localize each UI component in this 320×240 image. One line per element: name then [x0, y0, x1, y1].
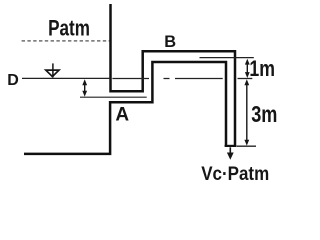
flow exit arrow — [229, 147, 231, 154]
3m double arrow — [246, 84, 248, 142]
svg-text:D: D — [7, 72, 19, 89]
svg-text:Patm: Patm — [48, 15, 90, 40]
water surface line D — [22, 77, 109, 79]
bottom dimension tick — [236, 145, 256, 147]
B pipe reference line for 1m — [200, 57, 254, 59]
1m double arrow — [246, 63, 248, 75]
wire tank outer wall and pipe outer wall P1 — [111, 4, 236, 146]
wire tank bottom, step A, pipe inner wall P2 — [24, 62, 226, 154]
centerline dash-dot — [112, 78, 222, 80]
inlet centerline — [80, 96, 147, 98]
svg-text:3m: 3m — [251, 101, 277, 127]
free surface symbol — [52, 63, 54, 77]
centerline tick at dimension arrows — [238, 78, 253, 80]
depth double arrow — [84, 83, 86, 93]
svg-text:B: B — [164, 33, 176, 51]
svg-text:Vc·Patm: Vc·Patm — [201, 163, 269, 185]
pipe exit cap — [225, 145, 237, 147]
svg-text:A: A — [115, 105, 129, 126]
dashed atmospheric pressure line — [22, 40, 110, 42]
svg-text:1m: 1m — [249, 56, 275, 81]
